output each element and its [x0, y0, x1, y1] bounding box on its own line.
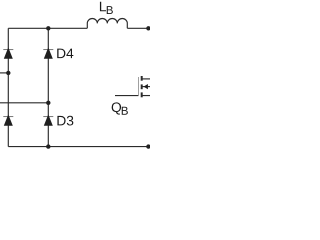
junction dot: AC2 on right leg [46, 101, 50, 105]
wire: bottom rail [8, 146, 148, 148]
label D4 [57, 49, 73, 58]
wire: left bridge leg [7, 28, 9, 146]
wire: gate lead [115, 95, 138, 97]
wire: AC input line 2 [0, 102, 48, 104]
wire: top rail right segment [127, 27, 148, 29]
junction dot: bottom rail right end [146, 144, 150, 148]
QB gate bar [137, 77, 139, 96]
wire: source lead [142, 95, 150, 97]
label QB [112, 102, 128, 114]
wire: right bridge leg [47, 28, 49, 146]
diode D4 [43, 47, 53, 58]
wire: drain lead [142, 78, 150, 80]
label LB [100, 2, 113, 14]
junction dot: AC1 on left leg [6, 71, 10, 75]
diode D1 (upper left, unlabeled) [3, 47, 13, 58]
wire: AC input line 1 [0, 72, 8, 74]
QB channel segment drain [141, 76, 143, 81]
QB channel segment body [141, 84, 143, 89]
junction dot: bottom of right leg [46, 144, 50, 148]
QB channel segment source [141, 92, 143, 97]
junction dot: top rail right end [146, 26, 150, 30]
wire: top rail left segment [8, 27, 87, 29]
QB body arrow [144, 84, 148, 89]
wire: body lead [142, 86, 150, 88]
junction dot: top of right leg [46, 26, 50, 30]
inductor LB coil [87, 19, 127, 29]
diode D2 (lower left, unlabeled) [3, 114, 13, 125]
label D3 [57, 116, 73, 126]
diode D3 [43, 114, 53, 125]
transistor QB (MOSFET, cropped at right edge) [115, 76, 150, 97]
